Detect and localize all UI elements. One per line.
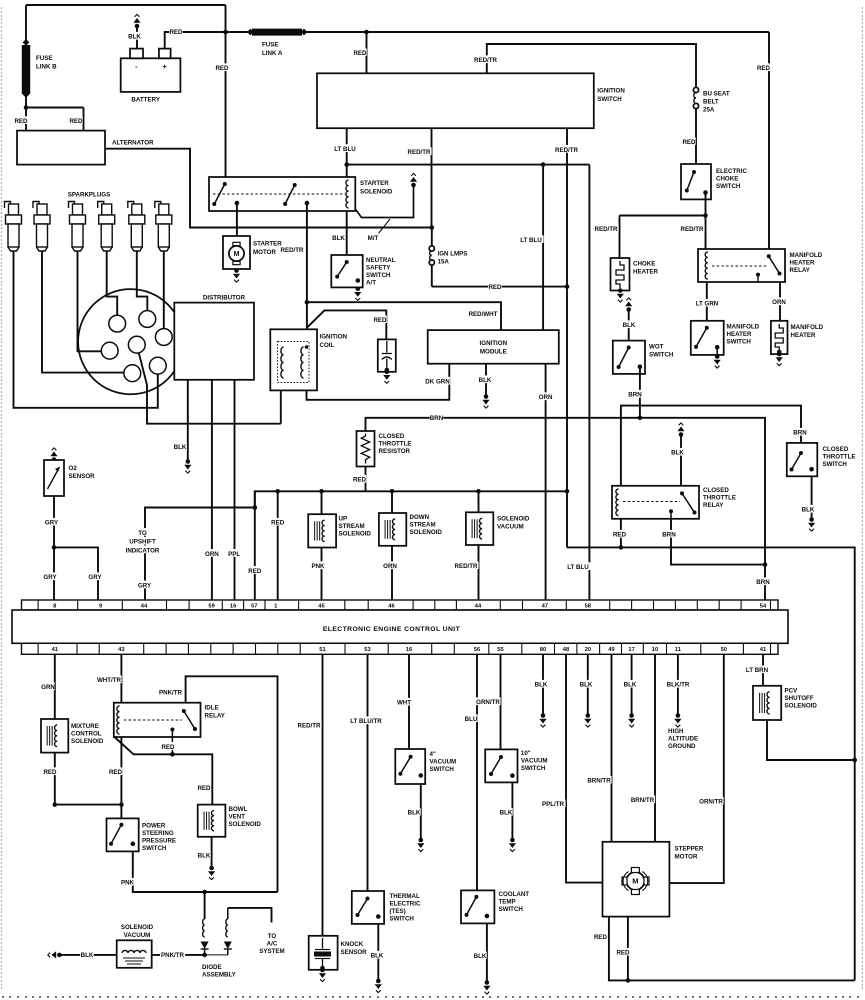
wire: ECU 43 WHT/TR to idle relay bbox=[120, 654, 122, 702]
junction coil feed bbox=[305, 300, 310, 305]
distributor cap circle bbox=[78, 289, 183, 394]
svg-text:LT BRN: LT BRN bbox=[746, 667, 769, 674]
svg-text:FUSE: FUSE bbox=[36, 55, 53, 62]
4in vacuum switch contact bbox=[398, 755, 412, 776]
junction upshift branch bbox=[253, 505, 258, 510]
svg-text:ORN: ORN bbox=[772, 299, 786, 306]
svg-text:ELECTRIC: ELECTRIC bbox=[390, 901, 421, 908]
svg-text:STREAM: STREAM bbox=[410, 522, 436, 529]
wire: ECU 17 BLK ground bbox=[631, 654, 633, 714]
wire: resistor to RED/TR bus bbox=[365, 467, 367, 492]
ground (distributor) bbox=[184, 459, 191, 473]
wire: plug 1 to distributor bbox=[14, 251, 158, 408]
svg-text:GRN: GRN bbox=[41, 684, 55, 691]
stepper motor symbol bbox=[622, 868, 649, 895]
svg-text:BRN: BRN bbox=[662, 532, 676, 539]
wire: stepper motor RED right to bottom run bbox=[627, 917, 629, 981]
wire: WOT to BRN bus bbox=[639, 367, 641, 418]
junction relay RED/accessory bbox=[619, 545, 624, 550]
label IGN LMPS 15A bbox=[438, 251, 468, 266]
wire: bus to solenoid vacuum bbox=[478, 491, 480, 512]
junction ignition switch feed bbox=[364, 30, 369, 35]
svg-text:RED: RED bbox=[109, 769, 123, 776]
svg-text:WHT/TR: WHT/TR bbox=[97, 677, 122, 684]
wire: fuse link B junction to alternator inputs bbox=[26, 108, 84, 131]
label RED (alternator right) bbox=[69, 116, 83, 125]
idle relay box bbox=[114, 703, 201, 737]
svg-text:PNK/TR: PNK/TR bbox=[161, 952, 185, 959]
label BRN (bus) bbox=[430, 413, 444, 422]
M/T ground path bbox=[355, 173, 417, 217]
wire: bowl vent BLK to ground bbox=[211, 837, 213, 867]
wire: LT BLU to ECU pin 55 bbox=[588, 165, 590, 600]
junction idle relay RED bbox=[170, 752, 175, 757]
knock sensor bbox=[309, 936, 338, 971]
svg-text:10": 10" bbox=[521, 750, 531, 757]
svg-text:DISTRIBUTOR: DISTRIBUTOR bbox=[203, 295, 246, 302]
ECU bottom pin numbers bbox=[52, 647, 767, 653]
junction LT BLU module drop bbox=[541, 162, 546, 167]
closed throttle switch contact bbox=[790, 451, 804, 472]
svg-text:DIODE: DIODE bbox=[202, 964, 222, 971]
svg-text:DK GRN: DK GRN bbox=[425, 379, 450, 386]
svg-text:20: 20 bbox=[585, 647, 591, 653]
4in vacuum switch box bbox=[395, 749, 425, 784]
wire: RED junction crossover bbox=[55, 804, 122, 806]
svg-text:MANIFOLD: MANIFOLD bbox=[791, 324, 824, 331]
wire: PNK/TR to solenoid vacuum bbox=[152, 954, 205, 956]
label RED/WHT bbox=[469, 309, 498, 318]
junction WOT/BRN bus bbox=[638, 416, 643, 421]
svg-text:IGNITION: IGNITION bbox=[597, 88, 625, 95]
ground (ECU 80) bbox=[539, 713, 546, 727]
wire: ground BLK into relay contact bbox=[680, 435, 682, 486]
label BLK (distributor ground) bbox=[173, 442, 187, 451]
svg-text:RED: RED bbox=[373, 317, 387, 324]
label BLK (coolant) bbox=[473, 951, 487, 960]
label RED (ECU 1) bbox=[271, 518, 285, 527]
manifold heater switch contact bbox=[694, 326, 709, 349]
wire: battery + to junction bbox=[165, 32, 226, 49]
wire: LT BLU into ignition module bbox=[542, 165, 544, 331]
wire: idle relay output to bowl vent bbox=[115, 737, 213, 805]
svg-text:58: 58 bbox=[585, 603, 592, 609]
svg-text:UP: UP bbox=[339, 516, 348, 523]
svg-text:O2: O2 bbox=[69, 465, 78, 472]
alternator bbox=[17, 131, 105, 165]
label BLK (battery ground) bbox=[128, 32, 142, 41]
svg-text:GRY: GRY bbox=[88, 574, 102, 581]
svg-text:LINK B: LINK B bbox=[36, 64, 57, 71]
svg-text:BRN/TR: BRN/TR bbox=[587, 778, 611, 785]
svg-text:80: 80 bbox=[540, 647, 546, 653]
svg-text:VENT: VENT bbox=[229, 814, 246, 821]
distributor cap tower 5 bbox=[124, 365, 141, 382]
label BLK (module ground) bbox=[478, 375, 492, 384]
svg-text:SHUTOFF: SHUTOFF bbox=[785, 695, 814, 702]
label LT BLU (solenoid S) bbox=[333, 144, 358, 153]
svg-text:SOLENOID: SOLENOID bbox=[360, 189, 393, 196]
label GRY (pin 9) bbox=[88, 572, 102, 581]
svg-text:ORN: ORN bbox=[205, 551, 219, 558]
junction diode assembly feed bbox=[202, 890, 207, 895]
ignition coil box bbox=[270, 329, 317, 390]
ground (ECU 20) bbox=[584, 713, 591, 727]
label RED/TR (knock) bbox=[297, 721, 322, 730]
label RED (alternator left) bbox=[14, 116, 28, 125]
wire: ECU 20 BLK ground bbox=[587, 654, 589, 714]
svg-text:SWITCH: SWITCH bbox=[716, 183, 741, 190]
svg-text:LINK A: LINK A bbox=[262, 50, 283, 57]
power steering switch output pin bbox=[131, 842, 136, 847]
label THERMAL ELECTRIC (TES) SWITCH bbox=[390, 893, 421, 923]
svg-text:BLK: BLK bbox=[671, 450, 684, 457]
spark plug 2 bbox=[33, 202, 50, 252]
closed throttle resistor R1 bbox=[357, 431, 375, 467]
label PPL/TR bbox=[541, 799, 566, 808]
mixture control solenoid bbox=[41, 719, 68, 753]
svg-text:45: 45 bbox=[318, 603, 325, 609]
svg-text:SWITCH: SWITCH bbox=[142, 845, 167, 852]
label SOLENOID VACUUM (mid) bbox=[497, 516, 530, 531]
stepper motor box bbox=[603, 842, 670, 917]
label FUSE LINK B bbox=[36, 55, 57, 70]
label RED/TR (main accessory feed) bbox=[554, 145, 579, 154]
fuse link B bbox=[22, 5, 30, 108]
svg-text:41: 41 bbox=[52, 647, 59, 653]
label IDLE RELAY bbox=[205, 705, 226, 720]
wire: relay RED output to accessory line bbox=[620, 519, 622, 548]
label LT BRN bbox=[745, 665, 770, 674]
svg-text:RED: RED bbox=[271, 520, 285, 527]
wire: LT BLU run to ignition module and ECU bbox=[347, 164, 590, 166]
label 4in VACUUM SWITCH bbox=[430, 751, 457, 773]
svg-text:RELAY: RELAY bbox=[790, 267, 811, 274]
wire RED into ignition switch bbox=[366, 32, 368, 73]
idle relay coil bbox=[117, 706, 120, 734]
svg-text:BLK: BLK bbox=[623, 322, 636, 329]
bowl vent solenoid bbox=[198, 805, 226, 837]
svg-text:RED: RED bbox=[613, 532, 627, 539]
svg-text:HEATER: HEATER bbox=[791, 332, 817, 339]
label CLOSED THROTTLE RESISTOR bbox=[379, 433, 412, 455]
svg-text:STEPPER: STEPPER bbox=[675, 846, 704, 853]
svg-text:15A: 15A bbox=[438, 259, 450, 266]
closed throttle switch output pin bbox=[809, 467, 814, 472]
svg-text:RED: RED bbox=[353, 50, 367, 57]
10in vacuum switch box bbox=[485, 749, 517, 782]
diode assembly diode 1 bbox=[201, 919, 209, 955]
label NEUTRAL SAFETY SWITCH A/T bbox=[366, 257, 396, 287]
label RED/TR (coil feed) bbox=[280, 247, 304, 254]
svg-text:GRY: GRY bbox=[43, 574, 57, 581]
label LT BLU (module feed) bbox=[519, 235, 544, 244]
svg-text:UPSHIFT: UPSHIFT bbox=[129, 539, 156, 546]
closed throttle relay box bbox=[612, 486, 699, 519]
svg-text:TEMP: TEMP bbox=[499, 899, 516, 906]
label STARTER MOTOR bbox=[253, 241, 282, 257]
svg-text:LT BLU/TR: LT BLU/TR bbox=[350, 718, 382, 725]
svg-text:RED: RED bbox=[43, 769, 57, 776]
label RED (stepper right) bbox=[616, 948, 630, 957]
svg-text:COIL: COIL bbox=[320, 342, 335, 349]
svg-text:RED: RED bbox=[353, 477, 367, 484]
ground (choke heater) bbox=[617, 288, 624, 302]
label BRN/TR (ECU 49) bbox=[587, 776, 612, 785]
label ORN (pin 59) bbox=[205, 549, 219, 558]
wire: ECU 41 GRN to mixture control solenoid bbox=[54, 654, 56, 719]
svg-text:SOLENOID: SOLENOID bbox=[410, 529, 443, 536]
svg-text:BLK: BLK bbox=[332, 235, 345, 242]
svg-text:GRY: GRY bbox=[138, 583, 152, 590]
condenser C1 bbox=[378, 339, 396, 372]
label RED (resistor) bbox=[353, 475, 367, 484]
starter solenoid contact 1 bbox=[212, 182, 227, 206]
wire: mixture solenoid RED to junction bbox=[54, 753, 56, 805]
svg-text:RELAY: RELAY bbox=[703, 502, 724, 509]
label ORN (manifold heater) bbox=[772, 297, 786, 306]
label BLK (TES) bbox=[370, 951, 384, 960]
neutral safety switch contact bbox=[335, 260, 349, 279]
junction LT BLU at solenoid bbox=[344, 162, 349, 167]
svg-text:BLK: BLK bbox=[580, 682, 593, 689]
svg-text:RED: RED bbox=[682, 139, 696, 146]
downstream solenoid bbox=[379, 513, 406, 546]
label BLK (4in) bbox=[407, 808, 421, 817]
upstream solenoid bbox=[308, 514, 336, 547]
svg-text:ASSEMBLY: ASSEMBLY bbox=[202, 972, 237, 979]
svg-text:RED: RED bbox=[14, 118, 28, 125]
wire: solenoid BLK to neutral safety switch bbox=[346, 211, 348, 255]
label BRN (ECU 54) bbox=[756, 577, 770, 586]
svg-text:SOLENOID: SOLENOID bbox=[497, 516, 530, 523]
svg-text:TO: TO bbox=[268, 933, 277, 940]
svg-text:TO: TO bbox=[138, 530, 147, 537]
TES switch contact bbox=[356, 897, 370, 918]
wire: ECU 53 LT BLU/TR to TES switch bbox=[367, 654, 369, 891]
svg-text:A/T: A/T bbox=[366, 280, 376, 287]
closed throttle switch box bbox=[787, 443, 818, 476]
svg-text:MIXTURE: MIXTURE bbox=[71, 723, 99, 730]
ground (closed throttle switch) bbox=[808, 517, 815, 531]
svg-text:RED/TR: RED/TR bbox=[454, 563, 478, 570]
distributor housing box bbox=[174, 303, 254, 380]
svg-text:11: 11 bbox=[675, 647, 682, 653]
distributor cap tower 2 bbox=[139, 311, 156, 328]
label RED (right edge) bbox=[757, 63, 771, 72]
svg-text:VACUUM: VACUUM bbox=[497, 524, 524, 531]
svg-text:43: 43 bbox=[118, 647, 125, 653]
svg-text:WOT: WOT bbox=[649, 344, 664, 351]
ign lamps fuse 15A bbox=[429, 228, 434, 287]
closed throttle relay stationary pin bbox=[669, 509, 673, 519]
wire: diode assembly input bbox=[204, 892, 206, 919]
manifold heater relay box bbox=[698, 249, 785, 282]
ground above WOT switch bbox=[625, 298, 632, 312]
wire: ignition switch LT BLU output bbox=[346, 128, 348, 177]
svg-text:THROTTLE: THROTTLE bbox=[379, 441, 412, 448]
electric choke switch box bbox=[681, 164, 711, 199]
svg-text:BLK: BLK bbox=[479, 377, 492, 384]
label FUSE LINK A bbox=[262, 42, 283, 58]
svg-text:CHOKE: CHOKE bbox=[716, 176, 738, 183]
svg-text:SOLENOID: SOLENOID bbox=[71, 738, 104, 745]
label RED (mixture) bbox=[43, 767, 57, 776]
wire: RED to ECU pin 57 bbox=[254, 491, 256, 599]
svg-text:RED: RED bbox=[215, 65, 229, 72]
svg-text:RESISTOR: RESISTOR bbox=[379, 448, 411, 455]
svg-text:IDLE: IDLE bbox=[205, 705, 219, 712]
label SPARKPLUGS bbox=[68, 190, 111, 199]
junction diode outputs bbox=[202, 953, 207, 958]
label RED (battery +) bbox=[169, 27, 183, 36]
svg-text:VACUUM: VACUUM bbox=[521, 758, 548, 765]
svg-text:GRY: GRY bbox=[45, 520, 59, 527]
svg-text:BLK: BLK bbox=[128, 34, 141, 41]
ECU U1 (electronic engine control unit) bbox=[12, 600, 788, 654]
svg-text:RED/TR: RED/TR bbox=[680, 226, 704, 233]
label GRN/TR bbox=[476, 697, 501, 706]
svg-text:SOLENOID: SOLENOID bbox=[339, 531, 372, 538]
label BLK (relay contact) bbox=[671, 448, 685, 457]
svg-text:BLK: BLK bbox=[198, 853, 211, 860]
junction BRN/relay-BRN bbox=[763, 562, 768, 567]
svg-text:INDICATOR: INDICATOR bbox=[126, 547, 160, 554]
label GRY (O2) bbox=[45, 518, 59, 527]
svg-text:RED/TR: RED/TR bbox=[474, 57, 498, 64]
label RED (choke switch feed) bbox=[682, 137, 696, 146]
label ELECTRONIC ENGINE CONTROL UNIT bbox=[323, 626, 461, 633]
wire: ECU 51 RED/TR to knock sensor bbox=[322, 654, 324, 936]
svg-text:DOWN: DOWN bbox=[410, 514, 430, 521]
svg-text:BLK: BLK bbox=[500, 810, 513, 817]
svg-text:BLK: BLK bbox=[408, 810, 421, 817]
svg-text:ORN: ORN bbox=[539, 394, 553, 401]
wire: main feed to right edge bbox=[367, 31, 770, 33]
ground (10in vacuum switch) bbox=[509, 838, 516, 852]
ground (bowl vent solenoid) bbox=[208, 866, 215, 880]
ground above closed throttle relay bbox=[677, 423, 684, 437]
svg-text:M: M bbox=[632, 877, 638, 886]
label RED (on run) bbox=[488, 282, 502, 291]
svg-text:PRESSURE: PRESSURE bbox=[142, 838, 176, 845]
wire: ECU 56 BLU to coolant temp switch bbox=[476, 654, 478, 890]
svg-text:ELECTRONIC ENGINE CONTROL U: ELECTRONIC ENGINE CONTROL UNIT bbox=[323, 626, 461, 633]
closed throttle relay contact bbox=[680, 491, 697, 514]
label ELECTRIC CHOKE SWITCH bbox=[716, 168, 747, 190]
label BLK (closed throttle switch) bbox=[801, 505, 815, 514]
junction PCV/accessory bbox=[852, 758, 857, 763]
WOT switch output pin bbox=[638, 364, 643, 369]
label BRN (relay out) bbox=[662, 530, 676, 539]
svg-text:GROUND: GROUND bbox=[668, 743, 696, 750]
wire: TES to ground bbox=[377, 924, 379, 980]
neutral safety switch box bbox=[331, 255, 362, 287]
junction solenoid vacuum bbox=[476, 489, 481, 494]
svg-text:44: 44 bbox=[475, 603, 482, 609]
distributor cap tower 4 bbox=[101, 342, 118, 359]
label BLK (solenoid to NSS) bbox=[332, 235, 345, 242]
4in vacuum switch output pin bbox=[419, 773, 424, 778]
ground (knock sensor) bbox=[319, 968, 326, 982]
wire: ECU 80 BLK ground bbox=[542, 654, 544, 714]
svg-text:POWER: POWER bbox=[142, 823, 166, 830]
ground (coolant temp switch) bbox=[483, 980, 490, 994]
wire: distributor pick-up PPL to ECU 16 bbox=[234, 380, 236, 600]
10in vacuum switch contact bbox=[489, 755, 503, 776]
idle relay center pin bbox=[170, 728, 174, 755]
label CLOSED THROTTLE SWITCH bbox=[823, 446, 856, 468]
wire: ECU 41 LT BRN to PCV solenoid bbox=[762, 654, 764, 686]
label LT GRN bbox=[695, 299, 720, 308]
svg-text:SWITCH: SWITCH bbox=[597, 96, 622, 103]
svg-text:4": 4" bbox=[430, 751, 436, 758]
label SOLENOID VACUUM (bottom) bbox=[121, 924, 154, 939]
label O2 SENSOR bbox=[69, 465, 96, 480]
svg-text:BLU: BLU bbox=[465, 716, 478, 723]
svg-text:BRN: BRN bbox=[430, 415, 444, 422]
svg-text:RELAY: RELAY bbox=[205, 713, 226, 720]
svg-text:SENSOR: SENSOR bbox=[69, 473, 96, 480]
svg-text:RED/TR: RED/TR bbox=[280, 247, 304, 254]
label PPL (pin 16) bbox=[227, 549, 241, 558]
svg-text:56: 56 bbox=[474, 647, 481, 653]
ground (ECU 17) bbox=[628, 713, 635, 727]
label POWER STEERING PRESSURE SWITCH bbox=[142, 823, 176, 853]
label BLK (10in) bbox=[499, 808, 513, 817]
svg-text:PNK/TR: PNK/TR bbox=[159, 690, 183, 697]
wire: RED/TR solenoid bus bbox=[255, 491, 567, 507]
spark plug 6 bbox=[155, 202, 172, 252]
wire: coil secondary to distributor center bbox=[139, 353, 281, 424]
label RED (ignition switch feed) bbox=[353, 48, 367, 57]
label 10in VACUUM SWITCH bbox=[521, 750, 548, 772]
wire: downstream solenoid ORN to ECU 46 bbox=[391, 546, 393, 600]
svg-text:47: 47 bbox=[542, 603, 548, 609]
label BRN/TR (ECU 10) bbox=[630, 795, 655, 804]
svg-text:M/T: M/T bbox=[368, 235, 379, 242]
label DIODE ASSEMBLY bbox=[202, 964, 237, 979]
spark plug 5 bbox=[128, 202, 145, 252]
svg-text:BU SEAT: BU SEAT bbox=[703, 91, 730, 98]
junction bus/RED-TR vertical bbox=[565, 489, 570, 494]
ground (starter motor) bbox=[233, 268, 240, 282]
choke heater box bbox=[611, 258, 630, 291]
svg-text:CONTROL: CONTROL bbox=[71, 731, 102, 738]
junction stepper RED bbox=[626, 978, 631, 983]
label RED/TR (ignition riser) bbox=[473, 55, 498, 64]
wire: solenoid to starter motor bbox=[236, 203, 238, 236]
wire: solenoid I-terminal down to coil bbox=[306, 203, 308, 329]
svg-text:ALTERNATOR: ALTERNATOR bbox=[112, 140, 154, 147]
svg-text:BLK: BLK bbox=[174, 444, 187, 451]
label PNK/TR (idle relay) bbox=[158, 688, 183, 697]
ignition coil windings bbox=[278, 342, 310, 383]
svg-text:PNK: PNK bbox=[311, 563, 325, 570]
junction battery/fuse-linkA/down-feed bbox=[223, 30, 228, 35]
wire: ECU 10 BRN/TR to stepper motor bbox=[654, 654, 656, 842]
wire: bus to upstream solenoid bbox=[321, 491, 323, 514]
label KNOCK SENSOR bbox=[341, 941, 368, 956]
label MANIFOLD HEATER SWITCH bbox=[727, 324, 760, 346]
thermal electric (TES) switch box bbox=[352, 891, 384, 924]
svg-text:THROTTLE: THROTTLE bbox=[703, 495, 736, 502]
junction downstream solenoid bbox=[390, 489, 395, 494]
svg-text:SWITCH: SWITCH bbox=[521, 765, 546, 772]
label UP STREAM SOLENOID bbox=[339, 516, 372, 538]
wire: ECU 16 WHT to 4in vacuum switch bbox=[408, 654, 410, 749]
svg-text:NEUTRAL: NEUTRAL bbox=[366, 257, 396, 264]
